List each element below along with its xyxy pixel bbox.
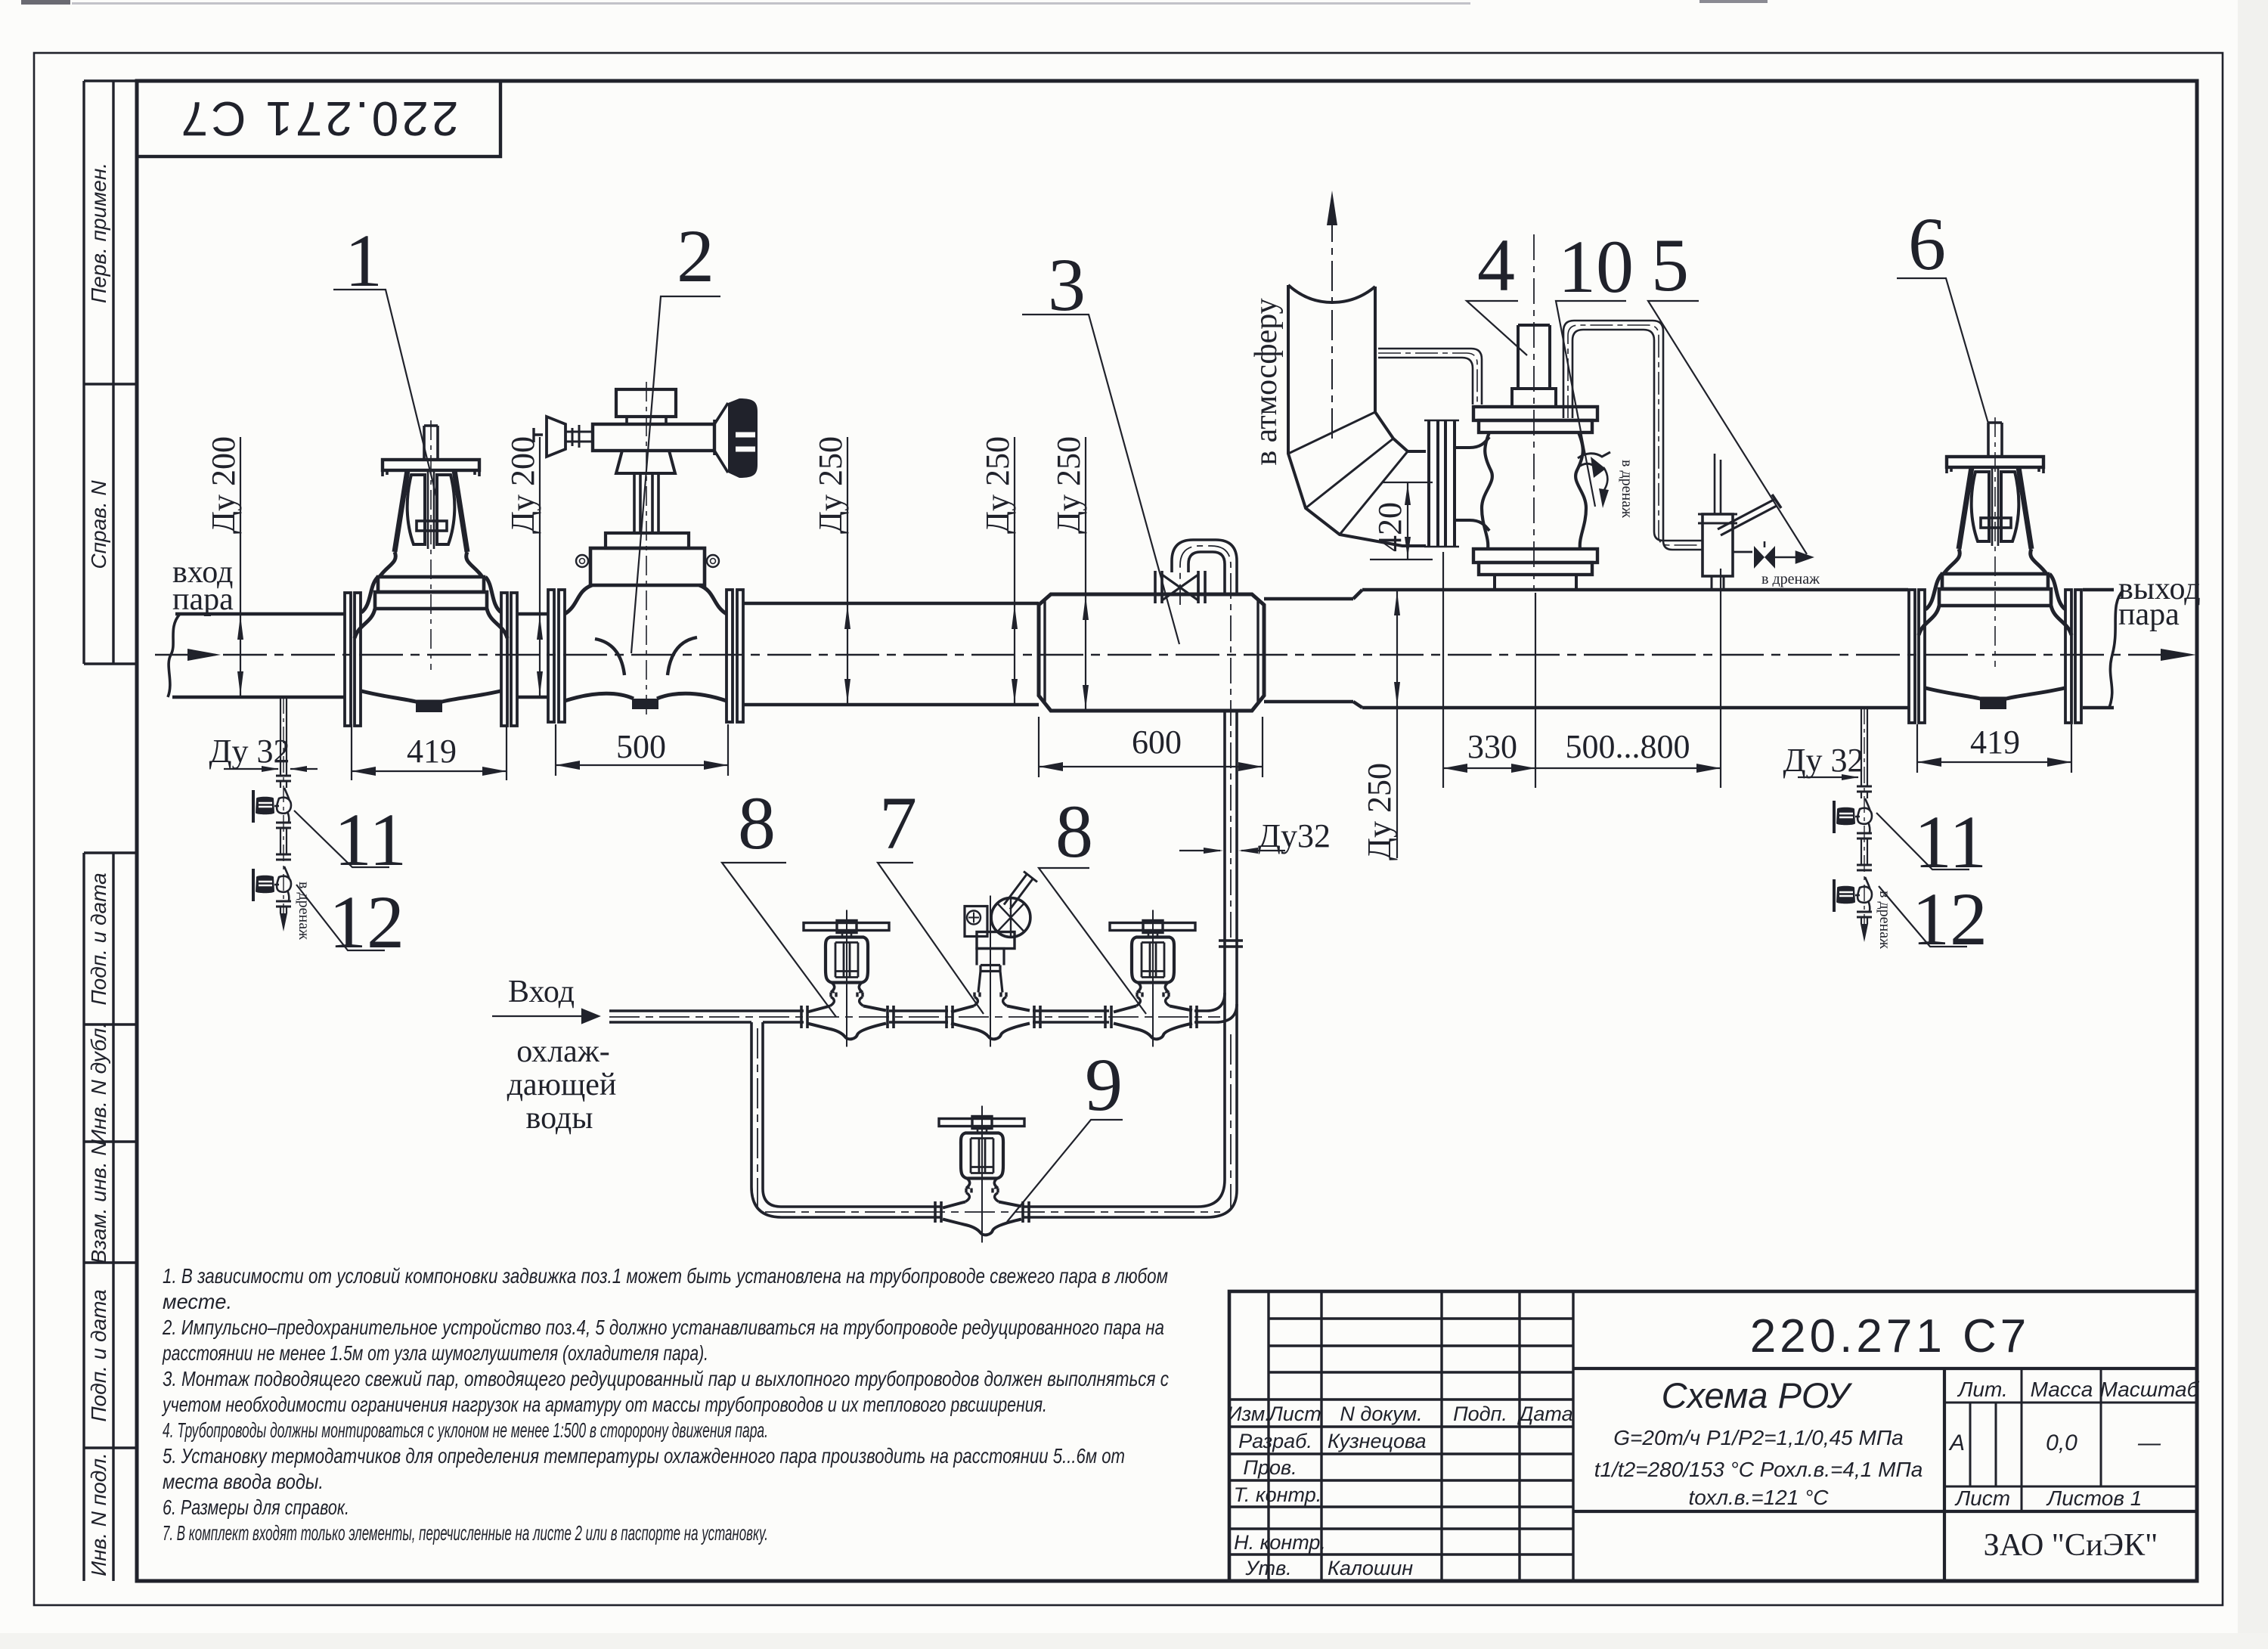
weld ticks bypass bottom: [935, 1201, 1029, 1223]
body bottom wave: [565, 693, 727, 701]
svg-text:3: 3: [1048, 243, 1086, 327]
impulse tube U to impulse valve: [1563, 321, 1663, 541]
main pipe centerline: [155, 654, 2192, 656]
svg-text:Н. контр.: Н. контр.: [1234, 1531, 1326, 1554]
svg-text:4. Трубопроводы должны монтир: 4. Трубопроводы должны монтироваться с у…: [163, 1418, 768, 1442]
leader pos7: [878, 863, 984, 1014]
svg-text:7. В комплект входят только э: 7. В комплект входят только элементы, пе…: [163, 1521, 768, 1545]
handwheel left cone: [547, 417, 565, 457]
pipe run Du250 valve2 to silencer: [743, 603, 1039, 705]
control valve 2 body: [534, 382, 758, 722]
svg-text:Подп. и дата: Подп. и дата: [87, 1289, 110, 1421]
leader pos5: [1648, 301, 1807, 554]
svg-text:Ду 250: Ду 250: [1050, 436, 1087, 534]
pipe run Du200 inlet: [172, 614, 345, 697]
flow arrow outlet: [2161, 649, 2196, 661]
drain assembly right (11,12): [1833, 708, 1872, 942]
motor funnel: [714, 403, 728, 473]
svg-text:0,0: 0,0: [2046, 1430, 2077, 1455]
leader pos4: [1467, 301, 1527, 355]
svg-text:Ду32: Ду32: [1258, 817, 1331, 854]
top stamp box: [137, 81, 500, 157]
water line right elbow up: [1207, 993, 1237, 1022]
svg-text:Ду 32: Ду 32: [209, 733, 290, 770]
water control valve 7: [951, 872, 1037, 1047]
svg-text:Инв. N подл.: Инв. N подл.: [87, 1452, 110, 1576]
svg-text:Ду 250: Ду 250: [812, 436, 849, 534]
dim Du200 line 1: [240, 437, 241, 697]
svg-text:420: 420: [1371, 502, 1408, 552]
dim 419 right: [1917, 724, 2071, 773]
leader pos8 second: [1039, 868, 1146, 1014]
svg-text:пара: пара: [172, 582, 234, 617]
svg-text:Подп. и дата: Подп. и дата: [87, 873, 110, 1005]
injection riser (water to silencer): [1225, 711, 1237, 1190]
svg-text:7: 7: [879, 781, 917, 865]
tee body like needle valve: [974, 993, 1007, 1006]
water needle valve 8 second: [1110, 910, 1195, 1047]
leader pos8 first: [722, 863, 836, 1017]
riser weld ticks: [1219, 941, 1243, 947]
svg-text:2. Импульсно–предохранительно: 2. Импульсно–предохранительное устройств…: [162, 1316, 1164, 1339]
leader pos12 right: [1879, 886, 1967, 947]
pipe outlet break: [2109, 590, 2124, 708]
svg-text:месте.: месте.: [163, 1290, 232, 1313]
svg-text:Справ. N: Справ. N: [87, 480, 110, 569]
svg-text:А: А: [1948, 1430, 1965, 1455]
svg-text:Ду 250: Ду 250: [1361, 763, 1398, 860]
bonnet box valve2: [590, 548, 705, 585]
svg-text:в дренаж: в дренаж: [296, 882, 312, 940]
flanges valve2 right: [727, 590, 733, 722]
ear circles: [576, 555, 588, 567]
svg-text:5: 5: [1651, 223, 1689, 307]
riser pipe: [1518, 325, 1550, 389]
impulse tube from duct to valve4: [1378, 349, 1482, 405]
water needle valve 8 first: [804, 910, 889, 1047]
svg-text:419: 419: [1970, 724, 2020, 761]
leader pos1: [333, 290, 437, 499]
svg-text:пара: пара: [2118, 597, 2180, 632]
svg-text:220.271 С7: 220.271 С7: [178, 91, 459, 146]
svg-text:расстоянии не менее 1.5м от уз: расстоянии не менее 1.5м от узла шумоглу…: [162, 1341, 708, 1365]
lit massa masshtab grid: [1944, 1368, 2197, 1511]
pipe run Du250 to valve6: [1362, 590, 1908, 708]
leader pos11 left: [294, 811, 389, 867]
leader pos11 right: [1876, 813, 1969, 869]
injection nozzle on silencer: [1155, 571, 1205, 603]
drain assembly left (11,12): [252, 697, 291, 931]
dim Du250 line 4 (right): [1396, 591, 1398, 858]
svg-text:Лист: Лист: [1954, 1486, 2010, 1510]
dim Du200 line 2: [539, 437, 541, 697]
svg-text:G=20т/ч Р1/Р2=1,1/0,45 МПа: G=20т/ч Р1/Р2=1,1/0,45 МПа: [1613, 1426, 1903, 1449]
reducer step: [1353, 590, 1362, 708]
leader pos2: [631, 296, 720, 653]
svg-text:Вход: Вход: [508, 975, 575, 1009]
leader pos6: [1897, 278, 1988, 423]
pipe inlet break: [168, 614, 180, 697]
svg-text:Схема РОУ: Схема РОУ: [1662, 1375, 1853, 1415]
svg-text:—: —: [2137, 1430, 2161, 1455]
outlet neck to duct: [1455, 437, 1489, 531]
dim 420: [1370, 482, 1433, 559]
svg-text:11: 11: [1914, 800, 1987, 884]
left margin column group bottom: [84, 853, 137, 1581]
seat arcs inside body: [595, 637, 697, 675]
injection tube centerline: [1180, 546, 1231, 938]
svg-text:Ду 200: Ду 200: [205, 436, 242, 534]
tilted lever: [1004, 872, 1037, 910]
dim 600: [1039, 717, 1263, 777]
svg-text:8: 8: [738, 781, 776, 865]
water bypass left leg: [751, 1022, 782, 1217]
svg-text:1: 1: [345, 219, 383, 302]
svg-text:tохл.в.=121 °С: tохл.в.=121 °С: [1689, 1486, 1830, 1509]
spoke handwheel: [991, 898, 1030, 938]
actuator housing: [593, 424, 714, 451]
svg-text:4: 4: [1477, 223, 1515, 307]
svg-text:Разраб.: Разраб.: [1238, 1430, 1312, 1452]
leader pos12 left: [296, 885, 385, 950]
leader pos9: [1007, 1120, 1123, 1222]
svg-text:Калошин: Калошин: [1328, 1557, 1413, 1579]
svg-text:Утв.: Утв.: [1244, 1557, 1291, 1579]
svg-text:Масштаб: Масштаб: [2100, 1378, 2200, 1401]
bottom flange pair: [1473, 549, 1597, 563]
svg-text:Взам. инв. N: Взам. инв. N: [87, 1140, 110, 1264]
gate valve 6: [1909, 417, 2081, 723]
svg-text:Ду 250: Ду 250: [979, 436, 1016, 534]
svg-text:8: 8: [1055, 789, 1093, 873]
actuator bracket: [616, 451, 675, 473]
side motor black: [728, 398, 758, 478]
svg-text:419: 419: [407, 733, 457, 770]
svg-text:3. Монтаж подводящего свежий: 3. Монтаж подводящего свежий пар, отводя…: [163, 1367, 1169, 1390]
svg-text:в атмосферу: в атмосферу: [1249, 298, 1284, 465]
main block: [977, 932, 1015, 949]
svg-text:в дренаж: в дренаж: [1761, 571, 1820, 587]
dim 330: [1443, 552, 1535, 788]
body neck valve2: [565, 585, 727, 614]
dim 500...800: [1720, 569, 1721, 788]
svg-text:220.271 С7: 220.271 С7: [1750, 1310, 2031, 1362]
water line centerline: [609, 1017, 1231, 1212]
pipe after valve6: [2083, 590, 2114, 708]
gate valve 1: [345, 420, 517, 726]
svg-text:Изм.: Изм.: [1227, 1403, 1271, 1425]
svg-text:Дата: Дата: [1517, 1403, 1572, 1425]
title block grid left table: [1269, 1291, 1573, 1581]
svg-text:N докум.: N докум.: [1340, 1403, 1422, 1425]
svg-text:воды: воды: [526, 1101, 593, 1136]
svg-text:учетом необходимости ограничен: учетом необходимости ограничения нагрузо…: [161, 1393, 1047, 1416]
dim Du250 line 2: [1014, 437, 1015, 705]
connection down to pipe: [1712, 576, 1724, 590]
weld ticks water line: [801, 1006, 1197, 1028]
water bypass bottom run: [781, 1207, 1207, 1217]
svg-text:2: 2: [677, 214, 714, 298]
pipe between valve1 and valve2: [518, 614, 548, 697]
svg-text:12: 12: [1912, 877, 1988, 961]
svg-text:Пров.: Пров.: [1243, 1456, 1297, 1479]
valve2 centerline: [646, 382, 647, 718]
svg-text:Ду 32: Ду 32: [1783, 742, 1864, 779]
dim 500: [556, 724, 728, 776]
svg-text:6. Размеры для справок.: 6. Размеры для справок.: [163, 1496, 349, 1519]
svg-text:Подп.: Подп.: [1453, 1403, 1507, 1425]
svg-text:дающей: дающей: [507, 1068, 617, 1102]
svg-text:Листов 1: Листов 1: [2046, 1486, 2142, 1510]
svg-text:t1/t2=280/153 °С Рохл.в.=4,1: t1/t2=280/153 °С Рохл.в.=4,1 МПа: [1594, 1458, 1923, 1481]
exhaust duct to atmosphere: [1288, 191, 1459, 547]
svg-text:600: 600: [1132, 724, 1182, 761]
svg-text:Лит.: Лит.: [1957, 1378, 2008, 1401]
svg-text:6: 6: [1908, 202, 1946, 286]
svg-text:11: 11: [334, 798, 407, 882]
water main line walls: [609, 1011, 1216, 1022]
water line inlet arrow: [492, 1009, 599, 1023]
svg-text:в дренаж: в дренаж: [1619, 460, 1635, 518]
svg-text:5. Установку термодатчиков дл: 5. Установку термодатчиков для определен…: [163, 1444, 1125, 1468]
svg-text:1. В зависимости от условий к: 1. В зависимости от условий компоновки з…: [163, 1264, 1168, 1288]
svg-text:ЗАО "СиЭК": ЗАО "СиЭК": [1984, 1528, 2158, 1563]
svg-text:Масса: Масса: [2031, 1378, 2093, 1401]
body neck valve1: [361, 577, 501, 612]
pipe neck after silencer: [1264, 599, 1353, 702]
water bypass right elbow: [1198, 1179, 1237, 1217]
svg-text:12: 12: [329, 880, 404, 964]
water bypass valve 9: [939, 1106, 1024, 1243]
injection top U-bend: [1172, 540, 1237, 572]
duct centerline with arrow up: [1331, 203, 1333, 439]
left margin column group top: [84, 81, 137, 664]
body: [1482, 432, 1492, 549]
dim Du250 line 1: [847, 437, 848, 705]
top flange pair: [1473, 407, 1597, 420]
leader pos10: [1556, 301, 1626, 507]
silencer (steam cooler) 3: [1039, 594, 1264, 711]
body neck valve6: [1926, 574, 2065, 609]
top motor block: [616, 389, 676, 417]
svg-text:500...800: 500...800: [1566, 728, 1690, 765]
svg-text:500: 500: [616, 728, 666, 765]
svg-text:места ввода воды.: места ввода воды.: [163, 1470, 324, 1493]
drain right with small valve: [1733, 551, 1752, 553]
svg-text:10: 10: [1558, 225, 1634, 308]
svg-text:330: 330: [1467, 728, 1517, 765]
title block outer: [1229, 1291, 2197, 1581]
dim Du250 line 3 (silencer): [1085, 437, 1086, 711]
drain spout pos10: [1578, 452, 1610, 467]
duct outlet flange pair: [1429, 420, 1455, 547]
svg-text:охлаж-: охлаж-: [516, 1034, 610, 1069]
svg-text:Ду 200: Ду 200: [504, 436, 541, 534]
svg-text:Перв. примен.: Перв. примен.: [87, 163, 110, 303]
svg-text:Лист: Лист: [1267, 1403, 1321, 1425]
svg-text:Кузнецова: Кузнецова: [1328, 1430, 1427, 1452]
flow arrow inlet: [187, 649, 221, 661]
valve4 centerline: [1533, 234, 1535, 590]
lever: [1718, 499, 1777, 535]
flanges valve2 left: [548, 590, 554, 722]
leader pos3: [1022, 315, 1179, 644]
safety valve 4: [1455, 234, 1635, 590]
svg-text:Инв. N дубл.: Инв. N дубл.: [87, 1022, 110, 1145]
yoke column: [634, 473, 658, 533]
stem stack: [977, 949, 1004, 993]
svg-text:Т. контр.: Т. контр.: [1234, 1483, 1321, 1506]
dim 419 left: [352, 724, 507, 780]
impulse valve 5: [1698, 454, 1820, 590]
svg-text:9: 9: [1085, 1043, 1123, 1127]
